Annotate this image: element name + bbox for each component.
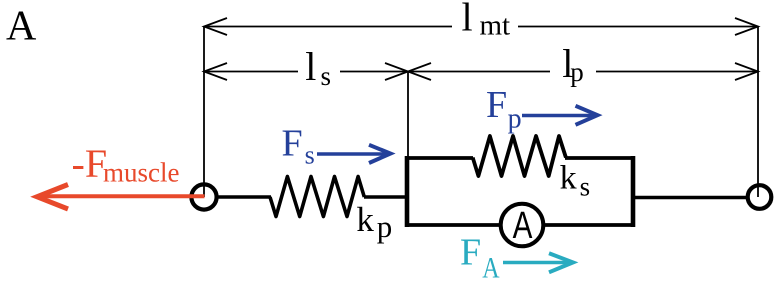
force arrow F_A (cyan) bbox=[503, 253, 573, 272]
svg-text:l: l bbox=[305, 44, 316, 89]
svg-text:p: p bbox=[570, 57, 584, 87]
extension line right (x=758) bbox=[757, 27, 759, 184]
force arrow F_s (blue) bbox=[317, 145, 391, 163]
spring kp bbox=[270, 177, 364, 217]
svg-text:F: F bbox=[460, 231, 481, 273]
svg-text:A: A bbox=[482, 251, 500, 282]
svg-text:k: k bbox=[356, 200, 374, 239]
wire top branch right bbox=[565, 156, 635, 160]
node circle left bbox=[191, 184, 216, 209]
extension line tail into left node bbox=[203, 183, 205, 197]
svg-text:F: F bbox=[486, 84, 507, 126]
svg-text:A: A bbox=[6, 3, 37, 49]
active element circle A bbox=[501, 204, 544, 247]
node circle right bbox=[748, 185, 772, 209]
svg-text:-F: -F bbox=[72, 141, 108, 186]
svg-text:p: p bbox=[377, 209, 393, 244]
svg-text:A: A bbox=[513, 204, 533, 246]
dimension line l_p bbox=[408, 63, 758, 80]
svg-text:k: k bbox=[560, 160, 577, 197]
spring ks bbox=[473, 136, 566, 176]
wire spring kp to box bbox=[364, 195, 407, 199]
svg-text:s: s bbox=[305, 141, 315, 170]
parallel box right bar bbox=[631, 156, 636, 227]
force arrow F_p (blue) bbox=[522, 106, 598, 125]
svg-text:muscle: muscle bbox=[103, 158, 179, 188]
svg-text:p: p bbox=[508, 103, 522, 134]
svg-text:mt: mt bbox=[480, 10, 511, 42]
wire box to node right bbox=[633, 196, 747, 200]
parallel box left bar bbox=[405, 156, 410, 227]
svg-text:F: F bbox=[282, 122, 303, 164]
dimension line l_mt bbox=[204, 18, 758, 35]
extension line tail into right node bbox=[757, 184, 759, 197]
extension line middle (x=408) bbox=[407, 72, 409, 161]
extension line left (x=204) bbox=[203, 27, 205, 183]
svg-text:l: l bbox=[462, 0, 473, 39]
wire bottom branch right bbox=[543, 223, 635, 227]
wire bottom branch left bbox=[405, 223, 501, 227]
wire node-left to spring kp bbox=[217, 195, 271, 199]
svg-text:s: s bbox=[321, 61, 332, 91]
wire top branch left bbox=[405, 156, 473, 160]
dimension line l_s bbox=[204, 63, 408, 80]
force arrow -Fmuscle (red) bbox=[37, 185, 205, 210]
svg-text:s: s bbox=[580, 172, 591, 202]
